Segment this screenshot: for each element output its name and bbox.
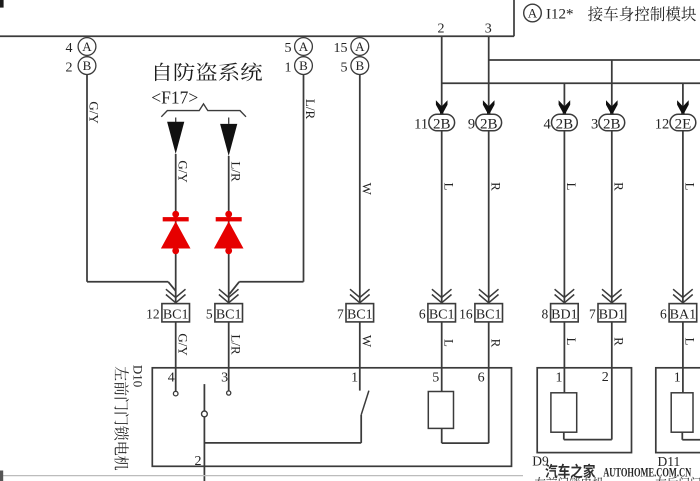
label R col5: [488, 182, 503, 191]
svg-text:G/Y: G/Y: [87, 101, 102, 124]
node I12 annotation: [524, 4, 574, 22]
svg-text:3: 3: [221, 371, 228, 386]
svg-text:15: 15: [334, 41, 348, 56]
wire drop to 4-2B: [563, 83, 565, 114]
diode D2 red: [214, 211, 244, 254]
label D11 name clipped: [656, 477, 700, 481]
svg-text:6: 6: [419, 306, 426, 321]
connector 11-2B: [414, 114, 454, 132]
wire pin3 contact: [227, 368, 231, 395]
arrow from F17 a: [167, 118, 184, 154]
svg-text:R: R: [488, 182, 503, 191]
wire below box x175.7: [175, 322, 177, 368]
svg-text:L/R: L/R: [303, 99, 318, 120]
connector 8-BD1: [542, 304, 579, 323]
wire bus A: [489, 59, 700, 61]
connector 6-BC1: [419, 304, 456, 323]
arrow into connector x682.9: [677, 100, 689, 115]
wire motor D9 to pin2: [564, 368, 612, 440]
svg-text:5: 5: [285, 41, 292, 56]
svg-text:1: 1: [285, 60, 292, 75]
svg-text:2B: 2B: [480, 116, 498, 132]
svg-text:R: R: [611, 337, 626, 346]
wire 2B-9 to BC1-16: [488, 131, 490, 304]
label L/R diode2: [228, 161, 243, 182]
arrow chevron x359.8: [350, 289, 370, 303]
wire diode1: [175, 154, 177, 304]
wire BCM module boundary: [0, 0, 514, 36]
label W below x359.8: [359, 335, 374, 348]
svg-text:BA1: BA1: [670, 307, 696, 322]
label G/Y: [87, 101, 102, 124]
svg-text:7: 7: [589, 306, 596, 321]
wire drop to 12-2E: [682, 83, 684, 114]
component D9 box: [537, 368, 631, 453]
label L/R below x228.7: [228, 334, 243, 355]
connector A pin4: [66, 38, 96, 56]
svg-text:B: B: [355, 58, 364, 73]
wire pin1 switch: [359, 368, 361, 391]
wire motor D11: [682, 432, 700, 440]
svg-text:2B: 2B: [433, 116, 451, 132]
wire motor to pin6: [442, 368, 489, 443]
wire below box x441.7: [441, 322, 443, 368]
svg-text:BD1: BD1: [599, 307, 625, 322]
connector B pin1: [285, 57, 313, 76]
wire drop to 3-2B: [611, 60, 613, 115]
svg-text:L/R: L/R: [228, 334, 243, 355]
svg-text:6: 6: [478, 371, 485, 386]
component D10 box: [152, 368, 511, 467]
label anti-theft system: [155, 63, 262, 82]
wire below box x611.8: [611, 322, 613, 368]
pin 2: [438, 22, 445, 37]
svg-text:BC1: BC1: [347, 307, 373, 322]
connector 5-BC1: [206, 304, 243, 323]
connector 7-BC1: [337, 304, 374, 323]
connector B pin2: [66, 57, 96, 76]
label D10: [131, 365, 146, 387]
wire pin5 to motor: [441, 368, 443, 392]
pin 1 D9: [556, 371, 563, 386]
svg-text:B: B: [83, 58, 92, 73]
svg-text:9: 9: [468, 117, 475, 133]
pin 1 D10: [351, 371, 358, 386]
svg-text:W: W: [359, 335, 374, 348]
connector 3-2B: [591, 114, 625, 132]
arrow chevron x682.9: [673, 289, 693, 303]
label R below x611.8: [611, 337, 626, 346]
svg-text:<F17>: <F17>: [151, 87, 198, 107]
svg-text:6: 6: [660, 306, 667, 321]
wire L/R right: [229, 75, 303, 295]
label G/Y diode1: [175, 160, 190, 183]
label R col7: [611, 182, 626, 191]
svg-text:D10: D10: [131, 365, 146, 387]
brace: [161, 104, 246, 117]
svg-text:BD1: BD1: [551, 307, 577, 322]
svg-text:2B: 2B: [603, 116, 621, 132]
wire G/Y left: [87, 75, 176, 291]
svg-text:BC1: BC1: [429, 307, 455, 322]
svg-text:5: 5: [206, 306, 213, 321]
connector B pin5: [341, 57, 369, 76]
svg-text:L: L: [441, 183, 456, 191]
wire pin1 D9: [563, 368, 565, 393]
pin 1 D11: [674, 371, 681, 386]
bottom-left mark: [0, 471, 3, 481]
motor M1 D10 lock actuator: [428, 392, 453, 429]
svg-text:2: 2: [195, 454, 202, 469]
svg-text:A: A: [82, 39, 92, 54]
svg-text:3: 3: [591, 117, 598, 133]
svg-text:5: 5: [341, 60, 348, 75]
arrow chevron x228.7: [219, 289, 239, 303]
connector 16-BC1: [459, 304, 502, 323]
label D9: [532, 454, 549, 469]
pin 2 D10: [195, 454, 202, 469]
svg-text:4: 4: [66, 41, 73, 56]
svg-text:B: B: [299, 58, 308, 73]
svg-text:7: 7: [337, 306, 344, 321]
wire pin4 contact: [173, 368, 178, 396]
pin 3 D10: [221, 371, 228, 386]
arrow chevron x564.4: [555, 289, 575, 303]
svg-text:2B: 2B: [556, 116, 574, 132]
corner mark: [0, 0, 4, 8]
label D11: [658, 454, 681, 469]
wire diode2: [228, 156, 230, 304]
pin 5 D10: [432, 371, 439, 386]
label F17: [151, 87, 198, 107]
connector 4-2B: [544, 114, 578, 132]
switch S1 arm D10: [204, 391, 369, 443]
pin 2 D9: [602, 370, 609, 385]
arrow chevron x488.7: [479, 289, 499, 303]
wire pin1 D11: [682, 368, 684, 393]
label L below x682.9: [683, 338, 698, 346]
svg-text:L: L: [564, 338, 579, 346]
arrow into connector x441.7: [436, 100, 448, 115]
wire W: [359, 75, 361, 304]
pin 6 D10: [478, 371, 485, 386]
svg-text:L: L: [683, 338, 698, 346]
wire pin2: [202, 384, 208, 481]
svg-text:R: R: [611, 182, 626, 191]
wire bus B: [442, 82, 700, 84]
svg-text:2: 2: [602, 370, 609, 385]
motor M3 D11: [671, 393, 693, 432]
svg-text:2: 2: [66, 60, 73, 75]
svg-text:16: 16: [459, 306, 473, 321]
arrow into connector x564.4: [559, 100, 571, 115]
label L below x441.7: [441, 339, 456, 347]
component D11 box: [656, 368, 700, 453]
svg-text:1: 1: [556, 371, 563, 386]
wire 2B-11 to BC1-6: [441, 131, 443, 304]
label L col6: [564, 183, 579, 191]
diode D1 red: [161, 211, 191, 254]
svg-text:L: L: [683, 183, 698, 191]
svg-text:2E: 2E: [675, 116, 692, 132]
wire below box x359.8: [359, 322, 361, 368]
svg-text:1: 1: [351, 371, 358, 386]
svg-text:G/Y: G/Y: [175, 333, 190, 356]
svg-text:L/R: L/R: [228, 161, 243, 182]
wire below box x682.9: [682, 322, 684, 368]
connector 7-BD1: [589, 304, 626, 323]
label G/Y below x175.7: [175, 333, 190, 356]
svg-text:12: 12: [146, 306, 160, 321]
wire below box x488.7: [488, 322, 490, 368]
label W upper: [359, 183, 374, 196]
svg-text:12: 12: [655, 117, 670, 133]
wire pin2 drop: [441, 36, 443, 114]
svg-text:2: 2: [438, 22, 445, 37]
svg-text:4: 4: [168, 371, 175, 386]
svg-text:4: 4: [544, 117, 552, 133]
wire pin3 drop: [488, 36, 490, 114]
arrow chevron x611.8: [602, 289, 622, 303]
wire 2B-4 to BD1-8: [563, 131, 565, 304]
svg-text:BC1: BC1: [216, 307, 242, 322]
arrow into connector x611.8: [606, 100, 618, 115]
svg-text:G/Y: G/Y: [175, 160, 190, 183]
bottom rule: [0, 475, 523, 477]
connector A pin15: [334, 38, 369, 56]
svg-text:A: A: [355, 39, 365, 54]
svg-text:BC1: BC1: [163, 307, 189, 322]
connector 9-2B: [468, 114, 502, 132]
wire below box x564.4: [563, 322, 565, 368]
svg-text:11: 11: [414, 117, 428, 133]
watermark cn: [545, 464, 595, 479]
svg-text:BC1: BC1: [476, 307, 502, 322]
arrow chevron x175.7: [166, 289, 186, 303]
svg-text:I12*: I12*: [546, 6, 574, 22]
pin 4 D10: [168, 371, 175, 386]
label header cn: [588, 6, 696, 21]
wire 2B-3 to BD1-7: [611, 131, 613, 304]
svg-text:3: 3: [485, 22, 492, 37]
arrow into connector x488.7: [483, 100, 495, 115]
label D9 name clipped: [535, 477, 604, 481]
arrow chevron x441.7: [432, 289, 452, 303]
connector 12-BC1: [146, 304, 189, 323]
label L below x564.4: [564, 338, 579, 346]
svg-text:1: 1: [674, 371, 681, 386]
arrow from F17 b: [220, 118, 237, 156]
svg-text:5: 5: [432, 371, 439, 386]
svg-text:L: L: [564, 183, 579, 191]
pin 3: [485, 22, 492, 37]
label D10 name: [114, 367, 129, 470]
label L col4: [441, 183, 456, 191]
label L/R: [303, 99, 318, 120]
watermark en: [603, 464, 691, 479]
svg-text:D9: D9: [532, 454, 549, 469]
svg-text:AUTOHOME.COM.CN: AUTOHOME.COM.CN: [603, 464, 691, 479]
connector 12-2E: [655, 114, 696, 132]
svg-text:L: L: [441, 339, 456, 347]
motor M2 D9: [551, 393, 577, 432]
label R below x488.7: [488, 339, 503, 348]
connector A pin5: [285, 38, 313, 56]
label L col8: [683, 183, 698, 191]
connector 6-BA1: [660, 304, 697, 323]
wire below box x228.7: [228, 322, 230, 368]
wire 2E-12 to BA1-6: [682, 131, 684, 304]
svg-text:R: R: [488, 339, 503, 348]
svg-text:8: 8: [542, 306, 549, 321]
svg-text:A: A: [528, 6, 538, 21]
svg-text:A: A: [299, 39, 309, 54]
svg-text:W: W: [359, 183, 374, 196]
